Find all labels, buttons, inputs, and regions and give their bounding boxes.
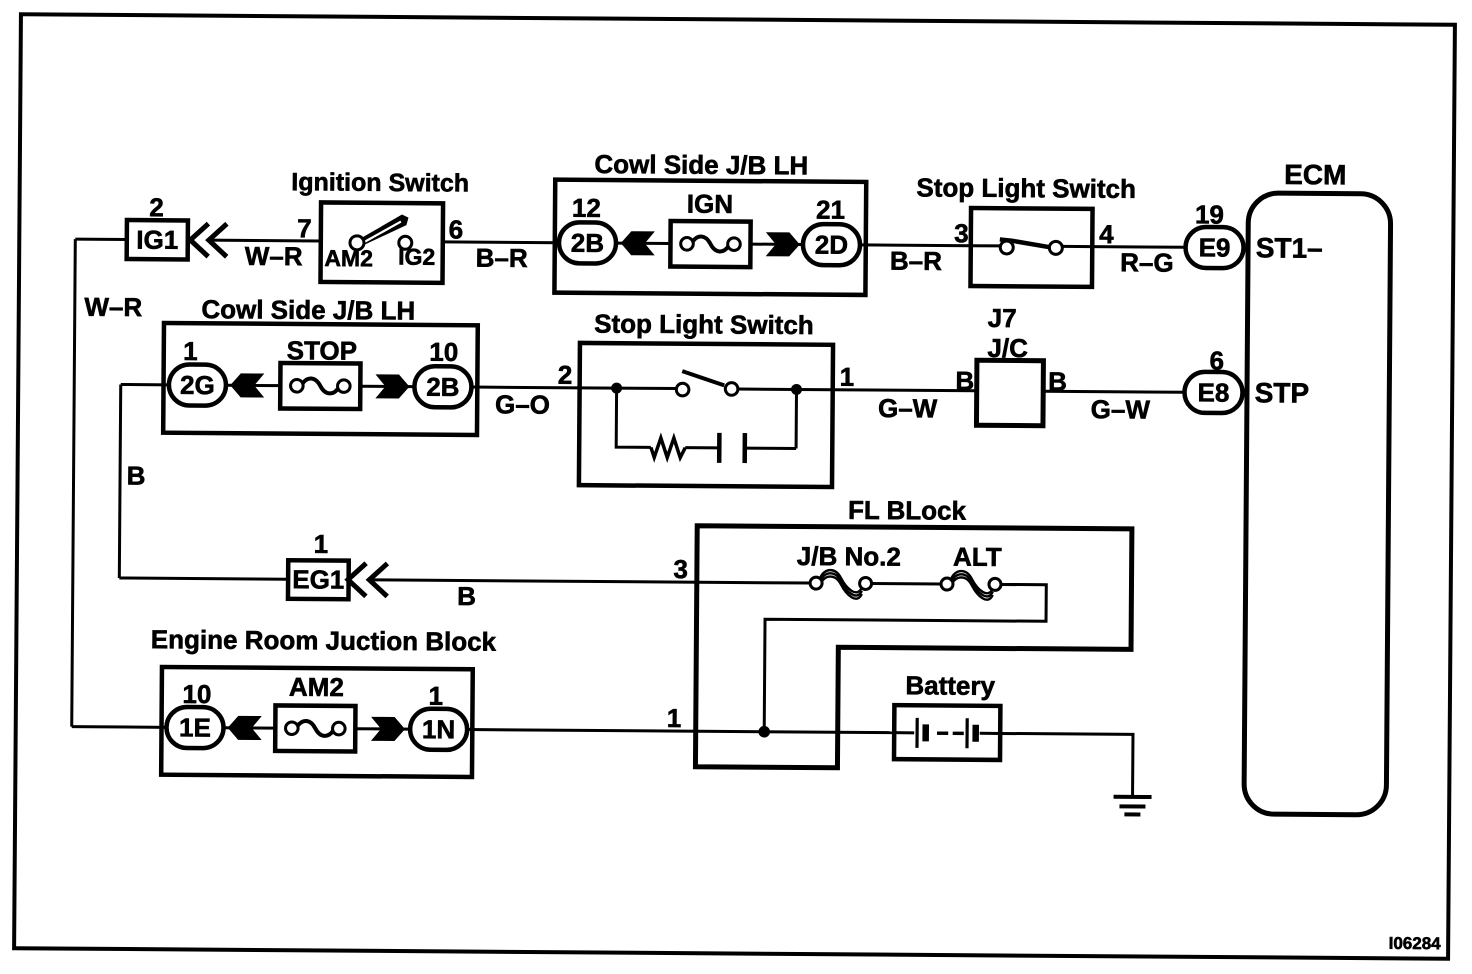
arrow right [375, 374, 409, 398]
wire fuse to 2D [750, 243, 802, 246]
svg-text:21: 21 [816, 195, 845, 225]
svg-text:FL BLock: FL BLock [848, 495, 967, 526]
wire G-W to E8 [1043, 391, 1184, 392]
svg-text:1: 1 [428, 681, 443, 711]
svg-text:3: 3 [673, 554, 688, 584]
wire R-G to E9 [1092, 245, 1185, 249]
fuse IGN [670, 189, 751, 268]
svg-text:ECM: ECM [1284, 159, 1346, 190]
svg-text:7: 7 [297, 213, 312, 243]
svg-text:4: 4 [1099, 219, 1114, 249]
FL block [695, 494, 1132, 770]
arrow right [371, 717, 405, 741]
connector 2B pin 10 [414, 337, 472, 408]
svg-text:B: B [955, 366, 974, 396]
wire B-R to stop light switch [860, 243, 970, 247]
svg-text:R–G: R–G [1120, 247, 1174, 277]
ignition switch [291, 168, 470, 283]
wire W-R IG1 to left corner [75, 238, 126, 241]
svg-text:B–R: B–R [890, 246, 942, 276]
resistor [651, 438, 686, 458]
connector E9 pin 19 [1185, 199, 1248, 268]
connector EG1 pin 1 [288, 529, 388, 600]
wire into 2G [121, 383, 169, 386]
svg-text:G–W: G–W [878, 393, 938, 423]
wire 1E to fuse [224, 726, 276, 729]
node junction dot [758, 726, 770, 738]
switch lever [358, 214, 408, 246]
svg-text:J7: J7 [988, 303, 1017, 333]
svg-text:W–R: W–R [84, 292, 142, 322]
node dot right [791, 384, 802, 395]
svg-text:10: 10 [182, 679, 211, 709]
svg-text:10: 10 [429, 337, 458, 367]
arrow right [766, 232, 800, 256]
svg-text:B: B [457, 581, 476, 611]
fusible link ALT [941, 542, 1002, 600]
wire G-O to stop light switch [472, 386, 580, 390]
wire fuse to 1N [355, 727, 410, 730]
arrow left [621, 231, 655, 255]
svg-text:Ignition Switch: Ignition Switch [291, 168, 469, 197]
svg-text:IG2: IG2 [398, 244, 435, 270]
terminal IG2 [399, 236, 412, 249]
wire B to FL block [369, 580, 810, 583]
svg-text:AM2: AM2 [324, 245, 373, 271]
arrow left [230, 373, 264, 397]
svg-text:2B: 2B [426, 372, 459, 402]
wire B-R to cowl J/B [443, 240, 559, 244]
svg-text:1: 1 [667, 703, 682, 733]
wire ALT to battery bus [764, 583, 1046, 734]
svg-text:I06284: I06284 [1389, 934, 1442, 953]
svg-text:2G: 2G [180, 370, 215, 400]
stop light switch (top) [916, 172, 1136, 287]
wire 2B to fuse [616, 242, 670, 245]
svg-text:Stop Light Switch: Stop Light Switch [916, 172, 1136, 204]
connector 1N pin 1 [410, 681, 468, 750]
wire 1N to battery [467, 730, 894, 733]
connector 2G pin 1 [169, 336, 227, 406]
wire W-R to ignition switch [209, 239, 321, 243]
fuse AM2 [275, 672, 356, 752]
wire vertical W-R left bus [72, 239, 76, 726]
fusible link J/B No.2 [797, 541, 901, 599]
svg-text:6: 6 [449, 214, 464, 244]
svg-text:1E: 1E [179, 712, 211, 742]
svg-text:EG1: EG1 [292, 564, 344, 594]
svg-text:2: 2 [149, 192, 164, 222]
svg-text:IGN: IGN [687, 189, 733, 219]
connector IG1 [127, 192, 227, 260]
junction block Cowl Side J/B LH (second) [163, 294, 478, 435]
arrow left [228, 716, 262, 740]
wire link row between [872, 582, 941, 586]
wire vertical 2G bus [119, 384, 120, 577]
wire G-W to J/C [833, 390, 977, 391]
wire RC branch [616, 388, 796, 448]
svg-text:Battery: Battery [905, 670, 995, 701]
svg-text:J/B No.2: J/B No.2 [797, 541, 901, 572]
node dot left [611, 383, 622, 394]
svg-text:W–R: W–R [245, 241, 303, 271]
terminal AM2 [350, 236, 364, 250]
svg-text:E8: E8 [1197, 377, 1229, 407]
svg-text:2D: 2D [815, 230, 848, 260]
engine room junction block [150, 624, 497, 777]
svg-text:STP: STP [1255, 377, 1310, 408]
svg-text:IG1: IG1 [136, 225, 178, 255]
connector 1E pin 10 [166, 679, 224, 748]
svg-text:3: 3 [954, 218, 969, 248]
wire fuse to 2B [360, 385, 414, 388]
svg-text:ALT: ALT [953, 542, 1002, 572]
wire 2G to fuse [226, 384, 280, 387]
svg-text:12: 12 [572, 193, 601, 223]
wire to EG1 [119, 578, 288, 579]
capacitor [719, 433, 745, 463]
ECM [1244, 159, 1391, 815]
stop light switch (second) [579, 308, 833, 487]
svg-text:1: 1 [183, 336, 198, 366]
svg-text:ST1–: ST1– [1256, 232, 1323, 263]
svg-text:AM2: AM2 [289, 672, 344, 702]
svg-text:B–R: B–R [476, 243, 528, 273]
svg-text:2B: 2B [571, 228, 604, 258]
svg-text:1: 1 [314, 529, 329, 559]
ground [1113, 797, 1151, 815]
connector 2B pin 12 [559, 193, 617, 264]
wire bottom left to 1E [72, 725, 166, 729]
svg-text:E9: E9 [1199, 232, 1231, 262]
connector E8 pin 6 [1184, 345, 1247, 413]
svg-text:Cowl Side J/B LH: Cowl Side J/B LH [201, 294, 415, 326]
svg-text:1: 1 [840, 362, 855, 392]
connector 2D pin 21 [803, 194, 861, 265]
junction connector J7 J/C [955, 303, 1067, 426]
battery [894, 670, 1001, 760]
svg-text:B: B [127, 461, 146, 491]
wire battery to ground [1000, 733, 1133, 796]
svg-text:G–W: G–W [1091, 394, 1151, 424]
svg-text:Cowl Side J/B LH: Cowl Side J/B LH [594, 149, 808, 181]
junction block Cowl Side J/B LH (top) [554, 149, 866, 295]
svg-text:G–O: G–O [495, 389, 550, 419]
fuse STOP [280, 335, 361, 409]
svg-text:Stop Light Switch: Stop Light Switch [594, 308, 814, 340]
svg-text:2: 2 [558, 360, 573, 390]
svg-text:Engine Room Juction Block: Engine Room Juction Block [151, 624, 497, 657]
svg-text:1N: 1N [422, 714, 455, 744]
